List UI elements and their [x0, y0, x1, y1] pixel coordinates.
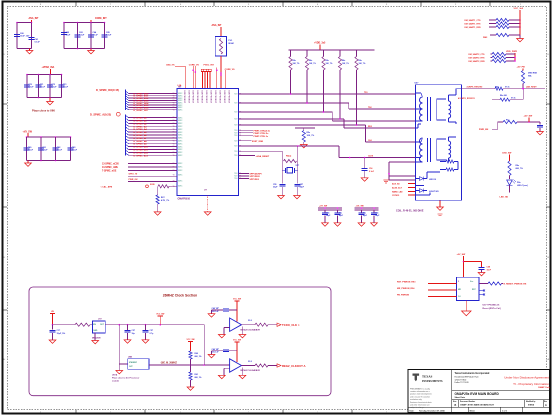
wire bank1 bottom rail: [17, 48, 32, 50]
svg-text:+3V_PB: +3V_PB: [517, 67, 526, 69]
wire bank4 top rail: [27, 136, 71, 138]
svg-text:R61: R61: [195, 374, 198, 376]
svg-text:VCC_SW: VCC_SW: [233, 299, 241, 301]
svg-text:D_SPMC_A(0:25): D_SPMC_A(0:25): [90, 112, 111, 116]
resistor R60: [189, 351, 192, 359]
svg-text:1 of 1: 1 of 1: [502, 410, 507, 412]
power pad top pin 4: [201, 69, 203, 71]
wire TD2 stair: [239, 102, 349, 104]
divider power VCC_SW: [188, 341, 193, 343]
ground buffer U3 a: [224, 367, 230, 369]
transformer T1 core: [427, 97, 429, 121]
resistor DM_UART2_CTS: [492, 52, 506, 55]
wire cap grpA rail: [318, 207, 342, 209]
svg-text:26MHZ Clock Section: 26MHZ Clock Section: [163, 294, 197, 298]
ground coil module: [439, 200, 441, 207]
wire bank1 top rail: [17, 22, 32, 24]
capacitor grpA c2: [337, 210, 339, 213]
svg-text:+3V_SW: +3V_SW: [457, 254, 467, 256]
svg-text:97.1k: 97.1k: [505, 87, 510, 89]
capacitor bypass U2: [229, 309, 237, 311]
svg-text:INSTRUMENTS: INSTRUMENTS: [422, 380, 443, 383]
svg-text:PRELIMINARY. Is usually: PRELIMINARY. Is usually: [410, 387, 430, 390]
svg-text:4/1 WFX_RXXXX1: 4/1 WFX_RXXXX1: [458, 97, 476, 100]
svg-text:7-SPMC_nOE: 7-SPMC_nOE: [102, 170, 117, 172]
capacitor C80: [24, 147, 30, 149]
svg-text:CM3_SW: CM3_SW: [502, 153, 512, 155]
capacitor C62: [61, 32, 67, 34]
svg-text:G10 F9 E8 D7: G10 F9 E8 D7: [205, 90, 207, 104]
svg-text:VCC_SW: VCC_SW: [233, 340, 241, 342]
svg-text:LIGHT W0: LIGHT W0: [429, 191, 439, 193]
wire SPMC_A7: [126, 136, 129, 138]
U60 bottom pin wire: [207, 196, 209, 212]
ground oscillator: [94, 333, 96, 340]
svg-text:OMAP25x EVM MAIN BOARD: OMAP25x EVM MAIN BOARD: [455, 392, 500, 396]
svg-text:10K_7%: 10K_7%: [293, 63, 300, 65]
wire MR_PWRON in: [428, 289, 456, 291]
wire GPIO_79: [128, 175, 177, 177]
wire bank3 top rail: [27, 74, 62, 76]
svg-text:R4x: R4x: [359, 59, 362, 62]
svg-text:3: 3: [458, 281, 459, 283]
wire 7-SPMC_nOE: [128, 170, 177, 172]
svg-text:DM_UART2_RTS: DM_UART2_RTS: [469, 57, 486, 60]
svg-text:D_SPMC_A11: D_SPMC_A11: [134, 148, 149, 151]
svg-text:+VPAD_INA: +VPAD_INA: [42, 66, 55, 69]
wire U60 top pin 3: [194, 66, 196, 89]
svg-text:97.1k: 97.1k: [511, 97, 516, 99]
legal small print: [410, 387, 432, 409]
wire CLKR stair: [239, 124, 366, 126]
wire U60 top pin 7: [209, 71, 211, 88]
svg-text:D_SPMC_A10: D_SPMC_A10: [134, 146, 149, 149]
wire SPMC_A10: [126, 144, 129, 146]
wire PB_PWRON in: [428, 296, 456, 298]
svg-text:D_SPMC_A9: D_SPMC_A9: [134, 143, 148, 146]
svg-text:Modified by: Modified by: [526, 401, 535, 403]
wire +VDD rail: [319, 44, 321, 50]
ground network1: [519, 35, 521, 39]
ground C5: [127, 333, 129, 340]
svg-text:VCC_SW: VCC_SW: [186, 339, 194, 341]
ground buffer U2 b: [241, 327, 243, 335]
wire RD2 stair: [239, 118, 345, 120]
wire RN5 down: [356, 70, 358, 125]
svg-text:ALSE_ACT: ALSE_ACT: [392, 186, 403, 189]
svg-text:4 (WFX_RXXXX0: 4 (WFX_RXXXX0: [467, 86, 484, 89]
wire bank4 branch 1: [26, 137, 28, 161]
title block frame: [408, 370, 550, 413]
capacitor C59: [539, 122, 541, 125]
wire EVET_DNE: [239, 140, 252, 142]
wire riser to buffer1: [203, 325, 205, 365]
svg-text:PWR_EN: PWR_EN: [479, 129, 489, 131]
resistor R5x pull with ground: [295, 127, 315, 129]
power net labels above U60: [192, 69, 194, 71]
svg-text:10K_7%: 10K_7%: [307, 135, 315, 137]
wire CLKX long to coil module: [339, 157, 416, 159]
capacitor C73: [59, 84, 65, 86]
svg-text:TI - Proprietary Information: TI - Proprietary Information: [513, 382, 549, 386]
svg-text:Place close to U66: Place close to U66: [32, 109, 55, 113]
wire bank2 branch 2: [77, 23, 79, 49]
svg-text:G10 F9 E8 D7: G10 F9 E8 D7: [183, 90, 185, 104]
wire U60 top pin 9: [225, 70, 227, 88]
wire RD1 stair: [239, 111, 333, 113]
power pad top pin 5: [204, 69, 206, 71]
wire U60 top pin 6: [207, 71, 209, 88]
transformer T1 secondary coil: [449, 101, 451, 118]
title block dividers: [408, 370, 550, 413]
wire bank4 branch 3: [55, 137, 57, 161]
svg-text:R5(x): R5(x): [286, 156, 292, 158]
wire bank4 bottom rail: [27, 160, 71, 162]
svg-text:LED_SD: LED_SD: [500, 197, 509, 199]
svg-text:0.1uF: 0.1uF: [42, 149, 48, 151]
wire SPMC_A11: [126, 147, 129, 149]
svg-text:D_SPMC_A0: D_SPMC_A0: [134, 117, 148, 120]
svg-text:PWR_OK: PWR_OK: [129, 179, 139, 181]
U60 left pin names: [178, 93, 183, 188]
svg-text:N/A: N/A: [528, 75, 532, 78]
svg-text:PVDC_INT: PVDC_INT: [204, 64, 215, 66]
wire osc output: [105, 324, 204, 326]
svg-text:DM_UART1_RTS: DM_UART1_RTS: [465, 23, 482, 26]
resistor RN4 pullup: [339, 50, 341, 57]
wire VCC_3x5 vertical: [519, 10, 521, 35]
capacitor C71: [36, 84, 42, 86]
resistor DM_UART1_RXD: [496, 25, 509, 28]
svg-text:Size: Size: [453, 401, 456, 403]
svg-text:VDD_PWR: VDD_PWR: [506, 51, 517, 53]
svg-text:SN74LVC1GU04DBVR: SN74LVC1GU04DBVR: [240, 369, 260, 372]
svg-text:D_SPMC_A3: D_SPMC_A3: [134, 125, 148, 128]
svg-text:0.1uF: 0.1uF: [79, 34, 85, 36]
svg-text:product under development.: product under development.: [410, 393, 432, 396]
crystal X1: [282, 169, 285, 171]
ground R5x: [300, 145, 307, 148]
wire 13-SPMC_nWE: [128, 166, 177, 168]
resistor coil R int2: [440, 169, 446, 171]
U60 left pin numbers: [173, 93, 175, 188]
power pad top pin 6: [206, 69, 208, 71]
svg-text:subject to change.: subject to change.: [410, 406, 425, 409]
svg-text:MR_PWRON_RS#: MR_PWRON_RS#: [397, 288, 415, 290]
capacitor C64: [88, 34, 94, 36]
svg-text:PWRT-CTRL Dx: PWRT-CTRL Dx: [254, 133, 270, 135]
wire SPMC_DO1: [126, 94, 129, 96]
resistor DM_UART2_RXD: [492, 59, 506, 62]
svg-text:0.1uF: 0.1uF: [57, 149, 63, 151]
wire bank2 branch 1: [63, 23, 65, 49]
wire SPMC_A8: [126, 139, 129, 141]
capacitor grpB c2: [373, 210, 375, 213]
svg-text:13-SPMC_nWE: 13-SPMC_nWE: [102, 167, 119, 169]
svg-text:+VX_SW: +VX_SW: [356, 205, 364, 207]
svg-text:BGM: BGM: [229, 43, 234, 45]
capacitor C5x 0.1uF: [364, 158, 366, 168]
wire U60 top pin 8: [216, 68, 218, 89]
wire crystal left branch: [281, 151, 283, 183]
wire SPMC_A1: [126, 118, 129, 120]
svg-text:VCC_SW: VCC_SW: [156, 314, 164, 316]
ground buffer U2 a: [224, 327, 230, 329]
svg-text:module: module: [112, 381, 120, 383]
svg-text:SN74LVC1GU04DBVR: SN74LVC1GU04DBVR: [240, 328, 260, 331]
svg-text:SPPVDD2: SPPVDD2: [250, 179, 260, 181]
svg-text:15pF_5%: 15pF_5%: [57, 333, 66, 335]
wire bank4 branch 4: [70, 137, 72, 161]
svg-text:SPPVDD/SPI: SPPVDD/SPI: [250, 174, 262, 176]
ground U5B left: [118, 364, 120, 371]
transformer T2 core: [427, 138, 429, 162]
svg-text:4.7K_7%: 4.7K_7%: [161, 199, 169, 202]
svg-text:GND: GND: [93, 330, 98, 332]
svg-text:D_SPMC_DO(0:15): D_SPMC_DO(0:15): [96, 88, 119, 92]
resistor R69: [508, 161, 511, 176]
svg-text:C49 'NP': C49 'NP': [212, 348, 220, 351]
wire FL1 top: [220, 27, 222, 37]
svg-text:OMAP_EVM_MAIN_BOARD.SCH: OMAP_EVM_MAIN_BOARD.SCH: [460, 404, 494, 407]
wire U60 top pin 4: [202, 71, 204, 88]
wire power stub bank3: [49, 69, 51, 75]
wire SPMC_A6: [126, 133, 129, 135]
net label TCXO_CLK: [277, 323, 281, 326]
svg-text:Features characteristic data: Features characteristic data: [410, 401, 432, 404]
svg-text:G10 F9 E8 D7: G10 F9 E8 D7: [223, 90, 225, 104]
svg-text:Vcc: Vcc: [470, 281, 473, 283]
resistor output U3: [242, 365, 256, 367]
svg-text:CM4_3%: CM4_3%: [166, 63, 175, 66]
transformer T2 primary coil: [416, 141, 421, 143]
capacitor C55: [279, 183, 285, 185]
bus vertical SPMC_A: [125, 115, 127, 156]
svg-text:RD2: RD2: [368, 126, 372, 128]
svg-text:R4x: R4x: [342, 59, 345, 62]
ground C1: [52, 333, 54, 340]
wire bank3 branch 4: [61, 75, 63, 98]
net label REG2_CLKOUT: [277, 364, 281, 367]
svg-text:G10 F9 E8 D7: G10 F9 E8 D7: [210, 90, 212, 104]
svg-text:U5?A: U5?A: [112, 374, 118, 377]
capacitor grpA c1: [324, 210, 326, 213]
resistor DM_UART2_RTS: [492, 56, 506, 59]
resistor RN1 pullup: [290, 50, 292, 57]
svg-text:0.1uF: 0.1uF: [51, 86, 57, 88]
ground bypass cap U2: [212, 309, 223, 311]
svg-text:LED-C(xxx): LED-C(xxx): [517, 185, 528, 187]
capacitor C65: [102, 34, 108, 36]
resistor output U2: [242, 324, 256, 326]
wire to U5B: [118, 325, 120, 364]
svg-text:VCC_3x5: VCC_3x5: [514, 8, 524, 10]
wire reset power: [463, 256, 465, 277]
wire VDD_PWR vertical: [514, 53, 516, 61]
wire bank2 bottom rail: [64, 48, 105, 50]
wire LED top: [509, 154, 511, 161]
svg-text:G10 F9 E8 D7: G10 F9 E8 D7: [214, 90, 216, 104]
net label LED bottom: [509, 185, 511, 192]
svg-text:0.1uF: 0.1uF: [35, 42, 41, 44]
wire SPMC_A9: [126, 142, 129, 144]
power pad top pin 7: [209, 69, 211, 71]
ground C5x: [364, 171, 366, 178]
wire XTAL1 long: [239, 145, 339, 147]
capacitor C81: [38, 147, 44, 149]
U60 right pin names: [234, 94, 238, 181]
power VCC_SW buffer U3: [234, 341, 239, 343]
svg-text:10K_7%: 10K_7%: [309, 63, 316, 65]
transformer T1 secondary wires: [448, 95, 450, 101]
ground divider: [187, 387, 194, 390]
op-amp main processor U60 box: [177, 89, 239, 196]
svg-text:+USA_RESET: +USA_RESET: [256, 155, 270, 158]
svg-text:G10 F9 E8 D7: G10 F9 E8 D7: [196, 90, 198, 104]
svg-text:CORE_VS: CORE_VS: [225, 69, 236, 71]
wire U60 top pin 2: [192, 66, 194, 89]
svg-text:D_SPMC_A1: D_SPMC_A1: [134, 119, 148, 122]
svg-text:+VX_SW: +VX_SW: [319, 205, 327, 207]
svg-text:Residential WW? Audrif Twin: Residential WW? Audrif Twin: [455, 376, 479, 379]
TI logo: [412, 374, 419, 382]
svg-text:C49 'NP': C49 'NP': [212, 307, 220, 310]
resistor R56 feedback: [284, 159, 297, 162]
wire SPMC_DO7: [126, 108, 129, 110]
wire SPMC_A3: [126, 124, 129, 126]
svg-text:D_SPMC_A8: D_SPMC_A8: [134, 140, 148, 143]
wire bank2 branch 3: [90, 23, 92, 49]
wire cap grpB rail: [355, 207, 379, 209]
svg-text:OMAP Only: OMAP Only: [538, 386, 551, 389]
wire bank3 branch 2: [38, 75, 40, 98]
svg-text:GPIO_79: GPIO_79: [129, 174, 139, 176]
wire bank3 branch 1: [26, 75, 28, 98]
U60 right pin numbers: [239, 94, 241, 181]
ground grpA c2: [337, 215, 339, 222]
svg-text:CORE_VS: CORE_VS: [189, 64, 200, 66]
svg-text:RST_PWRON_RS#: RST_PWRON_RS#: [397, 282, 416, 284]
capacitor C61: [29, 37, 35, 39]
ground bank2: [90, 49, 92, 51]
capacitor C60: [14, 34, 20, 36]
svg-text:SC/B: SC/B: [150, 184, 155, 186]
LED D5x: [509, 176, 511, 180]
ground U60 bottom: [204, 212, 211, 215]
svg-text:680_1%: 680_1%: [195, 377, 202, 379]
svg-text:-19E_M_26MHZ: -19E_M_26MHZ: [160, 362, 177, 364]
ferrite bead FL1: [215, 37, 227, 56]
wire RST_PWRON in: [428, 283, 456, 285]
net label +USA_RESET: [239, 155, 256, 157]
wire U60 top pin 5: [204, 71, 206, 88]
wire crystal right branch: [297, 146, 299, 184]
ground grpB c1: [361, 215, 363, 222]
capacitor C6 2.7p: [145, 325, 147, 330]
svg-text:D_SPMC_A2: D_SPMC_A2: [134, 122, 148, 125]
svg-text:HH: HH: [178, 86, 182, 88]
buffer U2 triangle: [230, 318, 242, 331]
ground bank1: [29, 49, 31, 51]
svg-text:12500 TI Blvd: 12500 TI Blvd: [455, 379, 467, 381]
transformer T2 taps: [416, 157, 421, 159]
wire bank2 branch 4: [104, 23, 106, 49]
svg-text:+5V_SW: +5V_SW: [524, 116, 534, 118]
svg-text:LED D0: LED D0: [429, 179, 437, 181]
ground bank3: [49, 98, 51, 102]
bus vertical SPMC_DO: [125, 90, 127, 111]
svg-text:ANA_INT: ANA_INT: [29, 17, 40, 20]
svg-text:R6x 680: R6x 680: [500, 95, 507, 97]
capacitor C63: [75, 34, 81, 36]
wire SPMC_A5: [126, 130, 129, 132]
transformer T2 secondary wires: [448, 137, 450, 141]
svg-text:D_SPMC_A12: D_SPMC_A12: [134, 151, 149, 154]
svg-text:CORE_INT: CORE_INT: [95, 18, 107, 20]
resistor R61: [190, 365, 192, 372]
ground C57: [297, 187, 299, 196]
buffer U3 triangle: [230, 359, 242, 372]
ground C58: [481, 270, 483, 273]
svg-text:PWRT-CTRL 2x: PWRT-CTRL 2x: [254, 136, 269, 138]
ground R62: [154, 212, 161, 215]
wire bank4 branch 2: [40, 137, 42, 161]
svg-text:WAKE_LED: WAKE_LED: [392, 190, 403, 193]
svg-text:TD2: TD2: [368, 107, 372, 109]
wire osc input: [53, 324, 76, 326]
svg-text:CLKX: CLKX: [368, 155, 374, 157]
power VB stub: [158, 315, 163, 317]
svg-text:100.1uF: 100.1uF: [212, 311, 220, 313]
wire power stub bank4: [27, 133, 29, 137]
capacitor C1 15pF: [52, 325, 54, 330]
svg-text:B: B: [455, 404, 457, 407]
svg-text:DM3 R6B: DM3 R6B: [528, 73, 537, 75]
svg-text:REG2_CLKOUT A: REG2_CLKOUT A: [282, 364, 306, 368]
wire CSTS15: [408, 194, 416, 196]
svg-text:OMAP5910: OMAP5910: [178, 198, 191, 201]
svg-text:U5? TPS3803-01: U5? TPS3803-01: [483, 305, 501, 307]
transformer T1 primary coil: [416, 92, 421, 94]
svg-text:TD1: TD1: [364, 92, 368, 94]
svg-text:13-SPMC_nCS0: 13-SPMC_nCS0: [102, 163, 120, 165]
transformer T1 taps: [416, 108, 421, 110]
svg-text:Date:: Date:: [410, 409, 415, 412]
svg-text:SPPVDDIO: SPPVDDIO: [250, 176, 261, 178]
svg-text:Tuesday, December 07, 2004: Tuesday, December 07, 2004: [419, 409, 445, 412]
resistor DM_UART1_CTS: [496, 18, 509, 21]
wire SPPVDD group: [239, 173, 250, 175]
svg-text:D_SPMC_A6: D_SPMC_A6: [134, 134, 148, 137]
resistor clock R series: [75, 323, 90, 326]
svg-text:Reset (RSTn-Ctrl): Reset (RSTn-Ctrl): [483, 307, 502, 310]
svg-text:A: A: [545, 404, 547, 407]
capacitor C72: [47, 84, 53, 86]
svg-text:TEXAS: TEXAS: [422, 375, 433, 379]
svg-text:R4x: R4x: [309, 59, 312, 62]
wire SPMC_A12: [126, 150, 129, 152]
ground grpB c2: [373, 215, 375, 222]
diode D int1: [416, 178, 420, 180]
wire SPMC_A4: [126, 127, 129, 129]
coil module inner wires: [426, 172, 428, 179]
wire SPMC_DO3: [126, 98, 129, 100]
U60 top pin numbers: [183, 90, 230, 104]
wire RN3 down: [323, 70, 325, 112]
capacitor grpB c1: [361, 210, 363, 213]
svg-text:0.1uF: 0.1uF: [93, 34, 99, 36]
svg-text:R60: R60: [195, 353, 198, 355]
